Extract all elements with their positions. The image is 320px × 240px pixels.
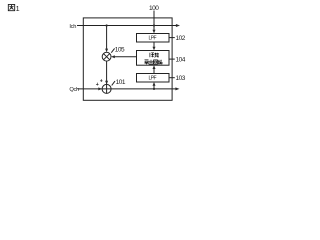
- svg-text:104: 104: [176, 56, 186, 63]
- svg-text:103: 103: [176, 75, 186, 82]
- svg-text:100: 100: [149, 5, 159, 12]
- svg-text:102: 102: [176, 35, 186, 42]
- svg-text:LPF: LPF: [149, 76, 157, 82]
- svg-text:Qch: Qch: [69, 87, 79, 93]
- svg-text:1: 1: [16, 4, 20, 13]
- svg-text:105: 105: [115, 46, 125, 53]
- svg-text:101: 101: [116, 79, 126, 86]
- svg-text:+: +: [100, 79, 103, 85]
- svg-text:LPF: LPF: [149, 36, 157, 42]
- svg-text:Ich: Ich: [69, 24, 76, 30]
- svg-text:+: +: [96, 82, 99, 88]
